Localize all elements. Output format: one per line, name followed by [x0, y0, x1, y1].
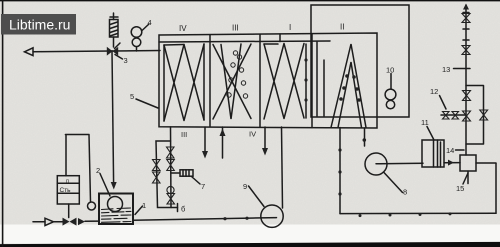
- svg-text:п: п: [66, 179, 69, 185]
- svg-text:I: I: [289, 23, 291, 32]
- svg-text:III: III: [232, 24, 239, 33]
- svg-text:7: 7: [201, 182, 205, 191]
- svg-text:9: 9: [243, 182, 247, 191]
- svg-text:4: 4: [148, 18, 152, 27]
- svg-text:8: 8: [403, 188, 407, 197]
- svg-text:13: 13: [442, 65, 450, 74]
- svg-text:Libtime.ru: Libtime.ru: [9, 17, 70, 33]
- svg-text:15: 15: [456, 184, 464, 193]
- svg-text:2: 2: [96, 166, 100, 175]
- svg-text:б: б: [181, 205, 185, 214]
- svg-text:3: 3: [124, 56, 128, 65]
- svg-text:Сть: Сть: [60, 187, 72, 194]
- svg-text:11: 11: [421, 118, 429, 127]
- svg-text:II: II: [340, 23, 344, 32]
- svg-text:5: 5: [130, 92, 134, 101]
- svg-text:IV: IV: [179, 24, 187, 33]
- svg-text:1: 1: [142, 201, 146, 210]
- svg-text:IV: IV: [249, 130, 256, 139]
- svg-text:14: 14: [446, 146, 454, 155]
- svg-text:12: 12: [430, 87, 438, 96]
- svg-text:10: 10: [386, 66, 394, 75]
- svg-text:III: III: [181, 130, 187, 139]
